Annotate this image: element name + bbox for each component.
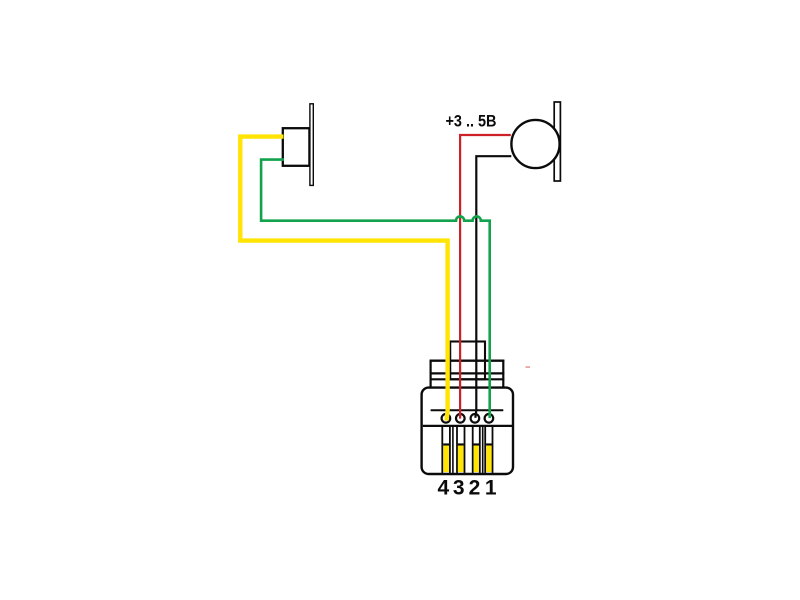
svg-text:4: 4 (438, 476, 450, 499)
gold contact pin 3 (458, 443, 464, 472)
svg-text:+3 .. 5B: +3 .. 5B (446, 113, 497, 131)
RJ11 plug latch (top small rectangle) (450, 342, 485, 380)
contact circle pin 2 (471, 414, 480, 423)
wire green: speaker - to plug pin contact 4 (label 1), hops over red and black (261, 160, 490, 418)
divider line between pin 2 and pin 1 slots (482, 426, 484, 473)
gold contact pin 1 (486, 443, 492, 472)
wire yellow: speaker + to plug pin contact 1 (label 4) (240, 137, 447, 421)
speaker body (earpiece) (283, 128, 310, 166)
slot lines pin 4 (442, 426, 450, 473)
slot lines pin 2 (473, 426, 480, 473)
RJ11 plug collar inner line 2 (430, 378, 505, 380)
RJ11 plug main body (422, 388, 513, 474)
divider line between pin 4 and pin 3 slots (452, 426, 454, 473)
svg-text:2: 2 (469, 476, 481, 499)
RJ11 plug collar inner line 1 (430, 372, 505, 374)
contact band top line (431, 409, 504, 411)
contact circle pin 1 (485, 414, 494, 423)
wire black: microphone output (475, 156, 511, 418)
wire red: +3..5B supply to microphone (460, 135, 511, 419)
gold contact pin 4 (443, 443, 449, 472)
slot lines pin 1 (485, 426, 492, 473)
microphone capsule (511, 120, 559, 168)
stray red artifact dash right of plug (526, 366, 531, 368)
RJ11 plug collar outer rectangle (430, 360, 505, 426)
microphone plate (554, 102, 560, 181)
slot lines pin 3 (457, 426, 465, 473)
svg-text:1: 1 (485, 476, 497, 499)
contact circle pin 3 (456, 414, 465, 423)
svg-text:3: 3 (453, 476, 465, 499)
gold contact pin 2 (474, 443, 480, 472)
contact band bottom line (423, 425, 512, 427)
contact circle pin 4 (442, 414, 451, 423)
speaker diaphragm plate (310, 104, 313, 186)
